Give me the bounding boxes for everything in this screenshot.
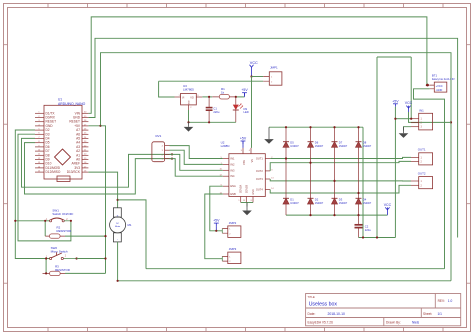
svg-text:SENSB: SENSB [245, 185, 248, 194]
svg-text:IN4: IN4 [230, 174, 235, 178]
junction rail3/VCC-IN1 [450, 121, 452, 123]
battery BT1 [428, 74, 456, 93]
svg-text:JMP3: JMP3 [229, 247, 237, 251]
resistor R2 [45, 225, 71, 238]
wire R1 out to +5V [237, 96, 245, 98]
svg-text:OUT1: OUT1 [418, 148, 426, 152]
junction SW feeder [14, 220, 16, 222]
wire GND rail (top rail 2) [88, 38, 457, 237]
junction diode bottom [357, 214, 359, 216]
svg-text:IN1: IN1 [230, 157, 235, 161]
svg-text:OUT2: OUT2 [256, 169, 263, 173]
svg-text:JMP2: JMP2 [229, 221, 237, 225]
svg-text:battery box 4xAA = 6V: battery box 4xAA = 6V [432, 78, 455, 81]
svg-text:REV:: REV: [438, 299, 445, 303]
wire OUT1b [270, 161, 411, 171]
svg-text:VCC: VCC [405, 101, 413, 105]
+5V power at IN1 [392, 99, 399, 107]
svg-text:RV1: RV1 [156, 134, 162, 138]
connector RV1 [152, 134, 170, 162]
svg-text:D7: D7 [339, 141, 343, 145]
junction diode top [285, 126, 287, 128]
ground at IN1 [399, 127, 409, 138]
wire OUT2a [270, 179, 411, 181]
svg-text:LED: LED [244, 110, 249, 114]
diode D2 1N4007 [308, 197, 324, 205]
wire VCC to JMP1 pin1 [252, 76, 264, 78]
svg-text:+VCC: +VCC [436, 84, 443, 88]
junction BT1 plus [426, 84, 428, 86]
wire rail B [118, 280, 451, 282]
svg-text:D3: D3 [339, 197, 343, 201]
svg-text:IN1: IN1 [419, 108, 424, 112]
svg-text:LM7805: LM7805 [183, 88, 194, 92]
svg-text:D2: D2 [315, 197, 319, 201]
jumper JMP1 [263, 66, 282, 86]
wire gnd rail under U3 [188, 110, 190, 122]
svg-text:VO: VO [190, 96, 194, 99]
diode D1 1N4007 [283, 197, 299, 205]
svg-text:D13/SCK: D13/SCK [67, 170, 81, 174]
svg-text:VI: VI [182, 96, 185, 99]
VCC power top [250, 61, 259, 77]
junction diode mid [333, 180, 335, 182]
svg-text:1N4007: 1N4007 [290, 202, 299, 205]
jumper JMP3 [228, 247, 241, 263]
svg-text:+5V: +5V [213, 219, 220, 223]
wire R2 to +5V column [65, 235, 106, 237]
svg-text:Motor: Motor [115, 225, 121, 228]
svg-text:1N4007: 1N4007 [290, 145, 299, 148]
wire SW2 junction to column [77, 258, 106, 260]
diode D7 1N4007 [332, 127, 348, 215]
junction diode top [357, 126, 359, 128]
svg-text:IN3: IN3 [230, 168, 235, 172]
junction SW2 out [76, 257, 78, 259]
wire R3 to column [65, 272, 106, 274]
junction SW1 out [70, 220, 72, 222]
svg-text:Switch ON/OFF: Switch ON/OFF [52, 212, 73, 216]
junction diode mid [309, 162, 311, 164]
wire RV1 p1 to IN4 [170, 159, 223, 177]
wire D5 to RV1 pin1 [25, 143, 173, 194]
connector OUT1 [411, 148, 433, 165]
svg-text:BT1: BT1 [432, 74, 438, 78]
svg-text:D12/MISO: D12/MISO [46, 170, 61, 174]
+5V power at JMP2 [213, 219, 220, 227]
wire SW2 to R3 [45, 259, 47, 274]
wire feeder branch to SW1 [15, 220, 50, 222]
svg-text:ARDUINO_NANO: ARDUINO_NANO [58, 102, 86, 106]
regulator U3 LM7805 [175, 84, 203, 110]
svg-text:L298N: L298N [221, 144, 230, 148]
svg-text:1N4007: 1N4007 [339, 202, 348, 205]
svg-text:Niels: Niels [412, 321, 419, 325]
svg-text:GND: GND [189, 100, 191, 105]
wire ENB to JMP3 [205, 194, 223, 259]
svg-text:+5V: +5V [240, 137, 247, 141]
wire ENA to JMP2 [210, 186, 223, 231]
connector OUT2 [411, 171, 433, 188]
diode D6 1N4007 [308, 127, 324, 215]
svg-text:1N4007: 1N4007 [315, 202, 324, 205]
wire +5V rail (top rail 3) [88, 53, 451, 281]
wire VCC down to U3 VI [159, 81, 175, 97]
svg-text:M1: M1 [128, 223, 132, 227]
wire U2 sense pins tie [241, 202, 253, 204]
svg-text:+5V: +5V [392, 99, 399, 103]
svg-text:2018-10-10: 2018-10-10 [328, 312, 345, 316]
wire motor bottom to rail B [117, 242, 119, 281]
wire diode bottom rail [286, 214, 387, 216]
svg-text:D5: D5 [290, 141, 294, 145]
wire rail right drop [362, 127, 364, 237]
svg-text:OUT3: OUT3 [256, 177, 263, 181]
wire long horizontal to JMP1 pin2 [159, 80, 264, 82]
junction motor bottom rail [117, 280, 119, 282]
U1 usb connector [57, 176, 70, 182]
svg-text:1N4007: 1N4007 [363, 202, 372, 205]
resistor R3 [43, 264, 70, 275]
svg-text:ENA: ENA [230, 184, 236, 188]
wire BT1 minus staircase to rail A [414, 89, 445, 269]
wire rail4 down to IN1 pin1 [410, 57, 412, 119]
wire +5V stem down through [394, 107, 396, 238]
ground at U2 [242, 203, 252, 216]
svg-text:Micro Switch: Micro Switch [51, 250, 68, 254]
svg-text:SENSA: SENSA [240, 185, 243, 194]
led D9 [233, 97, 249, 122]
svg-text:+5V: +5V [241, 88, 248, 92]
svg-text:JMP1: JMP1 [270, 66, 278, 70]
diode D3 1N4007 [332, 197, 348, 205]
svg-text:OUT1: OUT1 [256, 157, 263, 161]
svg-text:VS: VS [251, 159, 254, 163]
junction column at SW2 [104, 257, 106, 259]
diode D4 1N4007 [356, 197, 372, 205]
wire U3 VO to R1 [202, 96, 212, 98]
wire D4 to RV1 pin2 [22, 138, 173, 187]
svg-text:GND: GND [252, 189, 255, 195]
wire OUT1a [270, 157, 411, 158]
wire U2 VS to VCC [251, 81, 253, 148]
svg-text:Useless box: Useless box [309, 302, 338, 308]
wire RV1 p3 to IN2 [170, 150, 223, 164]
wire +5V branch down [101, 126, 106, 274]
svg-text:1N4007: 1N4007 [315, 145, 324, 148]
VCC power at diode rail [384, 203, 392, 214]
svg-text:VCC: VCC [250, 61, 258, 65]
ground at U3 [184, 122, 194, 131]
junction diode bottom [333, 214, 335, 216]
switch SW1 [46, 209, 74, 222]
svg-text:ENB: ENB [230, 192, 236, 196]
wire RV1 p2 to IN3 [170, 154, 223, 170]
title block [306, 294, 461, 326]
+5V power at R1 [241, 88, 248, 96]
svg-text:C2: C2 [365, 224, 369, 228]
svg-text:-: - [117, 237, 118, 241]
svg-text:-GND: -GND [436, 88, 443, 92]
op U1 Arduino Nano [35, 98, 88, 179]
ground at diode rail [264, 127, 274, 144]
wire C2 bottom rail [359, 237, 396, 239]
wire motor branch to rail A [118, 200, 146, 269]
wire VCC to IN1 connector [409, 121, 452, 123]
svg-text:VSS: VSS [243, 160, 246, 165]
svg-text:D8: D8 [363, 141, 367, 145]
junction VCC node [250, 75, 252, 77]
wire RV1 p4 to IN1 [170, 146, 223, 159]
svg-text:D9: D9 [244, 107, 248, 111]
wire D2 to SW1/SW2 feeder [15, 130, 50, 259]
wire VIN rail (top rail 1) [88, 17, 427, 113]
svg-text:220u: 220u [365, 228, 371, 232]
junction diode top [333, 126, 335, 128]
wire D3 sense loop [18, 134, 71, 241]
junction JMP2 [215, 230, 217, 232]
junction diode mid [357, 192, 359, 194]
motor M1 [110, 208, 132, 242]
svg-text:OUT2: OUT2 [418, 171, 426, 175]
svg-text:1/1: 1/1 [438, 312, 443, 316]
junction diode bottom [309, 214, 311, 216]
junction C1 tap [208, 96, 210, 98]
wire rail A [146, 268, 445, 270]
junction motor column [117, 199, 119, 201]
diode D5 1N4007 [283, 127, 299, 215]
wire VCC vertical through [251, 77, 253, 82]
svg-text:D1: D1 [290, 197, 294, 201]
connector IN1 [411, 108, 433, 130]
capacitor C2 [355, 215, 372, 237]
junction on +5V pin [99, 125, 101, 127]
junction RV1 pin2 [171, 153, 173, 155]
rail4 +5V top [377, 56, 411, 58]
junction diode top [309, 126, 311, 128]
capacitor C1 [206, 97, 220, 122]
svg-text:Date:: Date: [308, 312, 316, 316]
junction diode mid [285, 157, 287, 159]
svg-text:D6: D6 [315, 141, 319, 145]
jumper JMP2 [228, 221, 241, 237]
junction LED tap [235, 96, 237, 98]
svg-text:1.0: 1.0 [448, 299, 453, 303]
wire D13/SCK to motor column [88, 172, 117, 208]
junction RV1 pin1 [171, 158, 173, 160]
VCC power at IN1 [405, 101, 413, 112]
+5V power at U2 VSS [240, 137, 247, 145]
diode D8 1N4007 [356, 127, 372, 215]
svg-text:Sheet:: Sheet: [423, 312, 432, 316]
wire IN1 pin3 to gnd [404, 127, 412, 131]
svg-text:1N4007: 1N4007 [363, 145, 372, 148]
svg-text:TITLE:: TITLE: [308, 295, 316, 299]
svg-text:D4: D4 [363, 197, 367, 201]
wire OUT2b [270, 185, 411, 193]
svg-text:C1: C1 [213, 107, 217, 111]
op U2 L298N motor driver [219, 140, 274, 202]
junction R3 left [45, 272, 47, 274]
svg-text:220u: 220u [213, 110, 219, 114]
wire SW1 to R2 [44, 221, 46, 236]
svg-text:1N4007: 1N4007 [339, 145, 348, 148]
svg-text:VCC: VCC [384, 203, 392, 207]
svg-text:IN2: IN2 [230, 162, 235, 166]
wire rail4 left drop [376, 57, 378, 238]
svg-text:OUT4: OUT4 [256, 188, 263, 192]
svg-text:EasyEDA V5.7.26: EasyEDA V5.7.26 [308, 321, 334, 325]
svg-text:RESISTOR: RESISTOR [57, 229, 72, 233]
svg-text:Drawn By:: Drawn By: [386, 321, 401, 325]
svg-text:1k: 1k [221, 90, 225, 94]
resistor R1 [212, 87, 236, 99]
wire diode top rail [269, 126, 363, 128]
switch SW2 micro [46, 246, 77, 260]
